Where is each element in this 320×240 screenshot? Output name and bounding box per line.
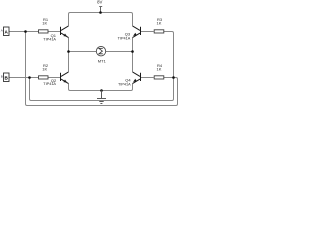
svg-text:B: B <box>1 74 3 78</box>
svg-text:TIP41A: TIP41A <box>118 37 131 41</box>
port A <box>4 27 10 36</box>
wire outer loop node A to R4 <box>26 32 178 106</box>
junction dot motor right node <box>131 50 134 53</box>
junction dot ground node <box>100 89 103 92</box>
svg-text:Q3: Q3 <box>125 31 131 36</box>
resistor R2 <box>39 76 49 79</box>
svg-text:1K: 1K <box>42 21 47 26</box>
svg-text:1K: 1K <box>157 21 162 26</box>
svg-text:Q4: Q4 <box>125 77 131 82</box>
resistor R3 <box>154 30 164 33</box>
junction dot node A <box>24 30 27 33</box>
svg-text:8V: 8V <box>97 0 102 5</box>
junction dot node B <box>28 76 31 79</box>
wire port B row <box>9 77 60 79</box>
junction dot supply rail <box>99 11 102 14</box>
junction dot R4 wire <box>172 76 175 79</box>
svg-text:1K: 1K <box>157 67 162 72</box>
svg-text:TIP41A: TIP41A <box>43 82 56 86</box>
resistor R4 <box>154 76 164 79</box>
svg-text:A: A <box>1 28 3 32</box>
wire motor row <box>69 38 133 52</box>
transistor Q1 <box>61 26 69 38</box>
svg-text:TIP41A: TIP41A <box>118 83 131 87</box>
wire port A row <box>9 31 60 33</box>
transistor Q4 <box>133 72 141 84</box>
ground <box>97 91 106 104</box>
wire R4 base lead <box>141 77 154 79</box>
wire bottom emitter rail <box>69 84 133 91</box>
port B <box>4 73 10 82</box>
junction dot motor left node <box>67 50 70 53</box>
motor MT1 <box>96 47 105 56</box>
power supply terminal V1 <box>99 7 102 13</box>
wire R3 base lead <box>141 31 154 33</box>
wire Q2 and Q4 collector drops <box>69 52 133 72</box>
resistor R1 <box>39 30 49 33</box>
wire top supply rail <box>69 13 133 26</box>
wire inner loop node B to R3 <box>30 32 174 101</box>
svg-text:1K: 1K <box>42 67 47 72</box>
transistor Q3 <box>133 26 141 38</box>
svg-text:TIP41A: TIP41A <box>43 37 56 41</box>
svg-text:MT1: MT1 <box>98 59 107 64</box>
transistor Q2 <box>61 72 69 84</box>
